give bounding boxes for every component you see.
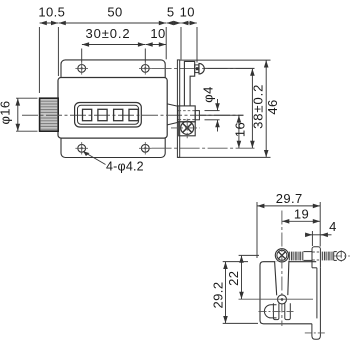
dim 5 [166, 23, 181, 60]
digit 1 [83, 109, 92, 120]
side flange plate edge-on [177, 60, 179, 157]
lever vertical centerline [281, 211, 283, 327]
dim 50 [59, 23, 167, 59]
lever top bracket [184, 61, 194, 106]
svg-text:22: 22 [226, 271, 241, 286]
lever arm [275, 261, 277, 295]
dim 30±0.2 [82, 45, 146, 63]
svg-text:38±0.2: 38±0.2 [251, 84, 266, 129]
fork left bar [273, 303, 279, 319]
centerline ext (16 top) [200, 114, 244, 116]
dim 10.5 [39, 23, 58, 93]
digit 2 [98, 109, 107, 120]
rod holder block [178, 106, 195, 122]
dim 29.2 [223, 262, 258, 324]
svg-text:46: 46 [265, 99, 280, 114]
hidden rod lines [179, 110, 196, 112]
dome head [199, 63, 204, 74]
screw hole top-left [75, 62, 88, 74]
svg-text:10.5: 10.5 [38, 4, 65, 19]
dim 29.7 [257, 202, 320, 258]
pivot pin box [195, 65, 199, 73]
dim 16 [238, 115, 240, 148]
flange back plate [61, 60, 165, 158]
dim 10 (top) [181, 23, 197, 63]
lower block [179, 122, 196, 136]
side bottom ext line (46) [178, 156, 271, 158]
svg-text:4-φ4.2: 4-φ4.2 [106, 160, 144, 174]
lever arm (white fill occludes body edge) [275, 261, 289, 295]
dim 19 [282, 220, 320, 222]
dim 38±0.2 [251, 69, 253, 148]
spring right section [322, 252, 337, 261]
svg-text:5: 5 [167, 4, 175, 19]
lever pivot screw [275, 249, 288, 262]
ext 38 top [205, 67, 255, 69]
adjust screw (phillips) [171, 119, 200, 138]
svg-text:16: 16 [233, 122, 248, 137]
roller stadium [264, 305, 276, 318]
dim 22 [239, 255, 259, 299]
body top view [260, 262, 316, 324]
svg-text:19: 19 [294, 206, 309, 221]
spring anchor tab [312, 247, 320, 268]
svg-text:50: 50 [107, 4, 122, 19]
bottom holes centerline to side view [152, 147, 255, 149]
svg-text:4: 4 [329, 219, 337, 234]
svg-text:φ4: φ4 [201, 86, 216, 102]
dim 4 [305, 231, 332, 246]
top holes centerline to side view [152, 67, 255, 69]
counter body housing [58, 78, 167, 139]
leader 4-φ4.2 [83, 151, 105, 164]
flange right face + mounting foot [312, 268, 321, 340]
display window outer [75, 103, 142, 128]
reset knob (knurled) [40, 98, 59, 131]
svg-text:29.2: 29.2 [210, 282, 225, 309]
dim φ4 [205, 99, 220, 132]
spring left section [289, 252, 312, 261]
spring end hook circle [337, 251, 346, 260]
svg-text:10: 10 [150, 26, 165, 41]
dim 46 [265, 60, 267, 157]
roller centerline [259, 311, 294, 313]
rod stub φ4 [195, 111, 199, 120]
fork right bar [285, 303, 291, 319]
screw hole bottom-right [139, 142, 152, 154]
display window inner [78, 105, 139, 124]
screw hole top-right [139, 62, 152, 74]
digit 4 [129, 109, 138, 120]
svg-text:φ16: φ16 [0, 100, 13, 124]
dim 10 (row2) [146, 44, 167, 46]
svg-text:10: 10 [180, 4, 195, 19]
digit 3 [114, 109, 123, 120]
main horizontal centerline [22, 114, 244, 116]
screw hole bottom-left [75, 142, 88, 154]
dim φ16 [16, 98, 38, 131]
side top ext line (46) [180, 59, 271, 61]
flange edge-on (right) [316, 268, 318, 319]
svg-text:30±0.2: 30±0.2 [85, 26, 130, 41]
svg-text:29.7: 29.7 [276, 191, 303, 206]
bracket diagonals to body [167, 104, 178, 106]
lever bottom boss [278, 295, 287, 304]
